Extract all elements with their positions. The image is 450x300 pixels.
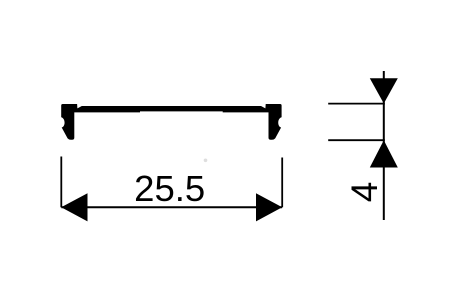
- vertical dimension line 4: [383, 71, 385, 220]
- extension line left: [60, 157, 62, 208]
- arrowhead left: [61, 193, 87, 221]
- svg-text:4: 4: [344, 182, 385, 203]
- svg-text:25.5: 25.5: [134, 168, 205, 209]
- arrowhead top (pointing down): [370, 78, 398, 103]
- profile cross-section (cover plate with snap legs): [61, 104, 281, 140]
- extension line bottom (profile bottom): [328, 139, 385, 141]
- extension line top (profile top): [328, 103, 385, 105]
- faint speck: [204, 159, 208, 163]
- arrowhead bottom (pointing up): [370, 140, 398, 167]
- extension line right: [281, 158, 283, 208]
- arrowhead right: [256, 193, 282, 221]
- dimension line 25.5: [61, 206, 282, 208]
